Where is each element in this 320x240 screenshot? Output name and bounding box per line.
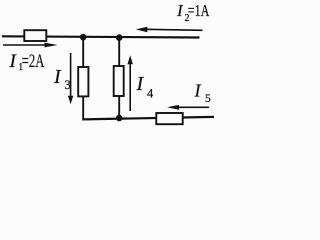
wire top horizontal	[2, 36, 200, 37]
current arrow I5 (points left, above bottom-right resistor)	[167, 105, 209, 110]
wire left branch vertical	[82, 37, 84, 120]
current arrow I3 (points down, left of left branch)	[68, 53, 73, 104]
svg-text:I: I	[53, 66, 62, 88]
svg-text:=2A: =2A	[22, 51, 45, 72]
svg-text:I: I	[136, 73, 145, 95]
node junction bottom	[116, 115, 123, 122]
svg-text:=1A: =1A	[188, 1, 210, 20]
resistor R2 (left vertical branch)	[78, 67, 88, 96]
svg-text:3: 3	[65, 78, 71, 92]
current arrow I1 (points right, below top-left wire)	[3, 43, 58, 48]
resistor R3 (right vertical branch)	[114, 66, 124, 96]
current arrow I4 (points up, right of right branch)	[128, 55, 133, 111]
svg-text:4: 4	[147, 86, 154, 100]
node junction top-right	[116, 34, 123, 41]
svg-text:I: I	[194, 80, 202, 100]
current arrow I2 (points left, above top wire right side)	[136, 27, 203, 32]
resistor R4 (bottom right, in series on bottom wire)	[156, 113, 182, 124]
wire right branch vertical	[118, 38, 120, 119]
resistor R1 (top left, in series on top wire)	[24, 30, 46, 41]
svg-text:5: 5	[205, 93, 211, 105]
wire bottom horizontal	[82, 117, 214, 120]
node junction top-left	[80, 34, 87, 41]
